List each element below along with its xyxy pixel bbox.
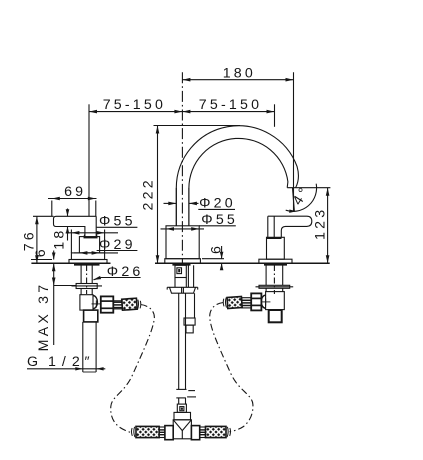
spout inlet tube + fitting	[184, 293, 195, 333]
svg-text:6: 6	[33, 246, 49, 257]
left valve base plate	[69, 260, 107, 264]
right valve lever (front view)	[268, 216, 312, 237]
dimension 180 (spout reach)	[182, 65, 293, 81]
left valve elbow body	[80, 295, 93, 310]
right valve elbow body	[266, 292, 285, 310]
tee top nut	[174, 412, 191, 419]
tee right nut	[191, 426, 199, 440]
bottom right braided hose	[206, 426, 227, 437]
spout base plate	[165, 259, 201, 264]
svg-text:180: 180	[223, 65, 256, 81]
svg-text:G: G	[27, 354, 41, 370]
svg-text:18: 18	[51, 228, 67, 250]
dimension 222 (spout height)	[141, 126, 240, 264]
svg-text:1/2: 1/2	[48, 354, 86, 370]
dimension 6 (spout base plate height)	[202, 243, 225, 270]
tube break symbol	[176, 389, 196, 398]
left valve lower body	[81, 289, 92, 295]
right valve lower body	[266, 288, 283, 291]
left valve cartridge (phi29)	[79, 237, 99, 253]
svg-text:69: 69	[64, 184, 86, 200]
tee clip fitting	[177, 404, 186, 412]
right valve outlet block	[269, 310, 282, 322]
left valve shank below deck	[81, 263, 92, 283]
dimension MAX 37 (clamping range)	[36, 263, 76, 351]
tee right sleeve	[200, 427, 206, 438]
right valve cartridge	[267, 237, 285, 259]
dimension 18 (lever thickness)	[51, 209, 69, 250]
spout supply tube (lower)	[179, 398, 186, 404]
svg-text:75-150: 75-150	[199, 97, 262, 113]
extension line right valve axis	[274, 104, 276, 127]
spout tip face + 123 top extension	[287, 187, 330, 189]
spout threaded stud	[188, 265, 193, 287]
right flex hose braided section	[227, 297, 242, 309]
left valve locknut	[76, 284, 97, 289]
dimension 75-150 right	[182, 97, 274, 114]
right hose compression sleeve	[242, 298, 251, 308]
left elbow centerline cross	[92, 300, 102, 307]
spout base cylinder	[166, 226, 199, 259]
deck line (left side view)	[31, 262, 110, 264]
dimension phi55 (left valve base)	[66, 214, 138, 253]
spout column	[176, 188, 189, 226]
right valve shank below deck	[266, 263, 283, 285]
left hose compression sleeve	[113, 301, 122, 309]
tee left sleeve	[159, 427, 165, 438]
left valve base cylinder phi55	[71, 253, 104, 260]
left valve axis centerline below deck	[86, 265, 88, 294]
right hose hex nut	[251, 293, 261, 310]
right base gasket shadow	[264, 263, 287, 265]
right valve axis centerline below deck	[273, 265, 275, 294]
label phi26 + leader	[93, 264, 144, 280]
bottom left hose end ticks	[131, 427, 134, 437]
dimension 69 (lever length)	[48, 184, 97, 216]
svg-text:75-150: 75-150	[103, 97, 166, 113]
svg-text:MAX 37: MAX 37	[36, 282, 52, 352]
spout mounting clip below deck	[175, 265, 186, 287]
bottom right hose end ticks	[227, 427, 230, 437]
spout clamp washer	[167, 287, 198, 293]
svg-text:″: ″	[85, 354, 93, 370]
dimension 6 (left base plate)	[31, 246, 56, 259]
left valve outlet block	[84, 310, 98, 322]
right valve elbow bump	[261, 295, 265, 308]
svg-text:6: 6	[209, 243, 225, 254]
right valve base plate	[259, 259, 292, 263]
dimension phi20	[164, 195, 236, 211]
tee body with funnel	[173, 420, 191, 439]
left hose end ticks	[138, 300, 141, 310]
left valve lever (side view)	[54, 216, 97, 236]
dimension phi29 (left valve cartridge)	[74, 237, 137, 255]
extension line left valve axis	[88, 104, 90, 216]
spout supply tube (upper)	[179, 293, 186, 389]
svg-text:222: 222	[141, 177, 157, 210]
spout gooseneck outer arc	[176, 126, 298, 226]
left base gasket shadow	[74, 263, 100, 265]
tee left nut	[165, 426, 173, 440]
right elbow centerline cross	[261, 298, 271, 305]
extension line at spout outlet axis (180 right end, 4-deg ref)	[293, 72, 295, 212]
4 deg tilt line	[293, 188, 295, 212]
right flexible hose phantom curve	[210, 303, 253, 432]
bottom left braided hose	[136, 426, 159, 437]
4 deg angle arc	[286, 184, 317, 212]
left flex hose braided section	[122, 298, 137, 310]
svg-text:123: 123	[313, 207, 329, 240]
left flexible hose phantom curve	[111, 305, 155, 433]
label G 1/2" with dimension line	[27, 354, 105, 371]
left hose hex nut	[101, 296, 114, 312]
dimension 76 (height above deck)	[22, 216, 39, 263]
spout vertical centerline	[181, 72, 183, 265]
deck line (front view)	[155, 262, 330, 264]
dimension 123 (outlet height)	[313, 188, 330, 264]
dimension phi55 (spout base)	[161, 212, 239, 231]
spout gooseneck inner arc	[189, 138, 288, 225]
right hose end ticks	[223, 298, 226, 308]
spout base gasket shadow	[172, 263, 190, 265]
right lever inner edge line	[273, 216, 275, 237]
left valve elbow bump	[93, 296, 97, 309]
right valve locknut	[259, 285, 290, 288]
left valve G1/2 tailpiece	[83, 322, 96, 372]
dimension 75-150 left	[89, 97, 182, 114]
left lever top extension to 76 dim	[33, 215, 54, 217]
